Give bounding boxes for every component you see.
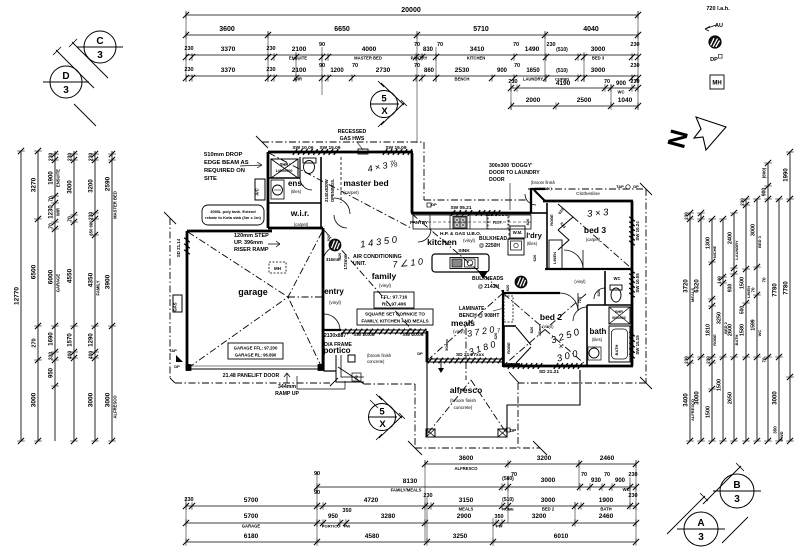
wir-ens internal wall: [268, 202, 321, 204]
garage door bottom thin: [187, 368, 324, 370]
svg-text:(broom finish: (broom finish: [531, 180, 556, 185]
svg-text:70: 70: [604, 79, 610, 85]
svg-text:PANTRY: PANTRY: [410, 220, 428, 225]
cupboard dashed front: [508, 215, 510, 240]
svg-text:1810: 1810: [706, 324, 712, 336]
svg-text:230: 230: [684, 212, 689, 220]
ens shower: [271, 159, 298, 178]
svg-text:BENCH @ 908HT: BENCH @ 908HT: [459, 313, 499, 319]
svg-text:LINEN: LINEN: [552, 252, 557, 264]
svg-text:KITCHEN: KITCHEN: [467, 56, 486, 61]
MH dashed box: [269, 262, 286, 273]
svg-text:(broom finish: (broom finish: [367, 353, 392, 358]
svg-text:@ 2143H: @ 2143H: [478, 284, 499, 290]
svg-text:TAP: TAP: [616, 184, 624, 189]
svg-text:2460: 2460: [600, 455, 615, 462]
svg-text:56mm: 56mm: [537, 324, 542, 336]
svg-text:SW 15.09: SW 15.09: [385, 145, 406, 151]
svg-text:920: 920: [326, 234, 331, 241]
svg-text:ENSUITE: ENSUITE: [289, 56, 307, 61]
ens shr wall: [268, 177, 300, 179]
svg-text:w.i.r.: w.i.r.: [290, 208, 310, 218]
svg-text:3270: 3270: [31, 177, 38, 192]
svg-text:SW 10.06: SW 10.06: [292, 145, 313, 151]
svg-text:350: 350: [494, 514, 503, 520]
pantry door arc: [418, 229, 431, 242]
svg-text:4550: 4550: [67, 268, 74, 283]
svg-text:1900: 1900: [49, 171, 55, 185]
svg-text:ens.: ens.: [288, 179, 304, 188]
svg-text:3200: 3200: [537, 455, 552, 462]
bed2 diagonals: [504, 294, 586, 365]
svg-text:DP: DP: [633, 184, 639, 189]
svg-text:900: 900: [497, 68, 508, 74]
svg-text:1500: 1500: [717, 379, 723, 391]
svg-text:2140x820W: 2140x820W: [324, 179, 329, 202]
section marker A/3: [677, 512, 725, 546]
bath shower: [609, 307, 630, 324]
portico step: [324, 370, 336, 372]
alfresco ridge: [428, 380, 471, 433]
meals floor arrow: [440, 361, 442, 371]
kitchen cooktop: [453, 217, 467, 229]
svg-text:REQUIRED ON: REQUIRED ON: [204, 168, 245, 174]
svg-text:RISER RAMP: RISER RAMP: [234, 247, 269, 253]
svg-text:rebate to Kota slab (3m x 1m): rebate to Kota slab (3m x 1m): [205, 215, 261, 220]
svg-text:3: 3: [63, 85, 69, 96]
svg-text:3000: 3000: [541, 477, 556, 484]
wir bottom wall: [268, 227, 323, 230]
svg-text:70: 70: [514, 63, 520, 69]
svg-text:ROBE: ROBE: [549, 214, 554, 226]
svg-text:820: 820: [505, 284, 510, 291]
svg-text:(600): (600): [762, 167, 767, 178]
svg-text:4580: 4580: [365, 533, 380, 540]
svg-text:Clothesline: Clothesline: [576, 191, 600, 197]
master robe sliding front: [340, 157, 342, 203]
bath tub: [609, 326, 630, 362]
svg-text:6010: 6010: [554, 533, 569, 540]
svg-text:1900: 1900: [599, 497, 614, 504]
svg-text:3000: 3000: [751, 224, 757, 236]
svg-text:bath: bath: [590, 327, 607, 336]
svg-text:720: 720: [577, 296, 582, 303]
svg-text:alfresco: alfresco: [450, 385, 483, 395]
svg-text:bed 2: bed 2: [540, 312, 562, 322]
exterior wall master bed right: [411, 153, 414, 213]
svg-text:21.48 PANELIFT DOOR: 21.48 PANELIFT DOOR: [223, 373, 280, 379]
svg-text:70: 70: [49, 196, 55, 202]
svg-text:6650: 6650: [334, 26, 350, 33]
wc toilet: [611, 288, 621, 302]
svg-text:230: 230: [89, 153, 95, 162]
svg-text:SW 20.06: SW 20.06: [353, 332, 374, 338]
svg-text:(vinyl): (vinyl): [463, 238, 476, 243]
svg-text:350: 350: [773, 426, 778, 434]
svg-text:ROBE: ROBE: [506, 342, 511, 354]
svg-text:12770: 12770: [14, 287, 21, 305]
svg-text:830: 830: [423, 47, 434, 53]
interior wall bed3 left-robe: [546, 203, 548, 269]
entry door arc: [324, 314, 340, 330]
svg-text:1230: 1230: [49, 205, 55, 219]
svg-text:820: 820: [525, 218, 530, 225]
svg-text:3000L poly tank. Extend: 3000L poly tank. Extend: [210, 209, 256, 214]
svg-text:70: 70: [49, 223, 55, 229]
svg-text:FAMILY/MEALS: FAMILY/MEALS: [391, 488, 422, 493]
svg-text:3000: 3000: [88, 392, 95, 407]
svg-text:MASTER BED: MASTER BED: [354, 56, 382, 61]
svg-text:family: family: [372, 271, 397, 281]
svg-text:FWD: FWD: [779, 431, 784, 440]
svg-text:3: 3: [698, 532, 704, 543]
svg-text:3000: 3000: [695, 391, 701, 405]
svg-text:ALFRESCO: ALFRESCO: [113, 395, 118, 419]
svg-text:PANTRY: PANTRY: [411, 56, 428, 61]
svg-text:(vinyl): (vinyl): [379, 283, 392, 288]
svg-text:210: 210: [508, 79, 517, 85]
svg-text:GAS: GAS: [173, 302, 178, 311]
svg-text:(broom finish: (broom finish: [450, 398, 477, 403]
svg-text:X: X: [379, 419, 386, 430]
bath north wall: [587, 304, 632, 306]
svg-text:GARAGE RL: 96.890: GARAGE RL: 96.890: [235, 353, 277, 358]
svg-text:SW 10.24: SW 10.24: [635, 221, 640, 241]
svg-text:A: A: [697, 518, 704, 529]
bed2 robe doors: [503, 326, 505, 364]
svg-text:2900: 2900: [457, 513, 472, 520]
svg-text:1500: 1500: [740, 277, 746, 289]
svg-text:20000: 20000: [401, 7, 421, 14]
svg-text:SHR: SHR: [615, 310, 623, 314]
svg-text:5710: 5710: [473, 26, 489, 33]
svg-text:REF.: REF.: [493, 220, 503, 226]
GAS meter box: [173, 295, 182, 312]
svg-text:master bed: master bed: [343, 178, 388, 188]
family south window wall: [341, 329, 427, 331]
svg-text:DP: DP: [510, 428, 516, 433]
svg-text:5700: 5700: [244, 513, 259, 520]
svg-text:344mm: 344mm: [278, 384, 296, 390]
svg-text:3: 3: [97, 50, 103, 61]
svg-text:6000: 6000: [48, 269, 55, 284]
alfresco boundary: [427, 362, 580, 437]
svg-text:BATH: BATH: [614, 344, 619, 355]
section cut line D lower: [74, 104, 96, 126]
svg-text:(vinyl): (vinyl): [574, 279, 586, 284]
right dimension strip: [684, 149, 794, 444]
svg-text:BULKHEAD: BULKHEAD: [479, 236, 507, 242]
svg-text:3 × 3: 3 × 3: [587, 207, 610, 220]
svg-text:WIR: WIR: [294, 77, 302, 82]
family-kitchen diagonal: [412, 214, 503, 292]
laundry nib walls: [531, 189, 545, 213]
entry diagonal: [324, 230, 412, 330]
svg-text:3400: 3400: [684, 393, 690, 407]
svg-text:SW 20.06: SW 20.06: [402, 332, 423, 338]
svg-text:@ 2250H: @ 2250H: [479, 243, 500, 249]
legend AU arrow: [705, 23, 723, 31]
svg-text:MEALS: MEALS: [459, 507, 474, 512]
svg-text:TAP: TAP: [169, 348, 177, 353]
svg-text:FAMILY: FAMILY: [96, 280, 101, 295]
svg-text:(510): (510): [556, 68, 568, 74]
wir door arc: [334, 215, 347, 228]
svg-text:OPENINGS.: OPENINGS.: [330, 179, 335, 202]
svg-text:330: 330: [49, 352, 55, 361]
svg-text:3000: 3000: [105, 392, 112, 407]
svg-text:ENSUITE: ENSUITE: [56, 169, 61, 187]
portico step label 2: [352, 373, 361, 381]
svg-text:l'dry: l'dry: [526, 231, 542, 240]
svg-text:70: 70: [604, 472, 610, 478]
svg-text:930: 930: [728, 284, 734, 293]
svg-text:ROBE: ROBE: [712, 334, 717, 346]
svg-text:2000: 2000: [526, 97, 541, 104]
svg-text:meals: meals: [451, 318, 475, 328]
ffl box: [374, 292, 414, 308]
svg-text:(tiles): (tiles): [291, 189, 302, 194]
svg-text:50mm: 50mm: [444, 339, 449, 351]
svg-text:70: 70: [511, 472, 517, 478]
svg-text:DP: DP: [174, 364, 180, 369]
exterior wall master-ens top: [268, 151, 413, 154]
svg-text:500: 500: [740, 306, 746, 315]
svg-text:4000: 4000: [362, 46, 377, 53]
meals diagonal: [430, 293, 503, 358]
svg-text:FW: FW: [496, 524, 502, 529]
laundry trough: [508, 239, 524, 255]
svg-text:3900: 3900: [105, 274, 112, 289]
svg-text:400: 400: [68, 351, 74, 360]
svg-text:BED 2: BED 2: [542, 507, 555, 512]
svg-text:H.P. & GAS U.B.O.: H.P. & GAS U.B.O.: [440, 231, 481, 237]
svg-text:1490: 1490: [525, 46, 540, 53]
svg-text:5: 5: [379, 407, 385, 418]
svg-text:6500: 6500: [31, 264, 38, 279]
svg-text:7780: 7780: [773, 283, 779, 297]
ramp leader bracket: [297, 376, 345, 389]
roof eave outline: [164, 136, 652, 455]
exterior wall kitchen top: [411, 212, 531, 215]
svg-text:1570: 1570: [68, 333, 74, 347]
svg-text:SW 05.21: SW 05.21: [450, 205, 471, 211]
exterior wall ens-wir left: [267, 152, 270, 228]
section cut line A-B: [703, 466, 741, 504]
svg-text:SQUARE SET CORNICE TO: SQUARE SET CORNICE TO: [365, 312, 425, 317]
svg-text:70: 70: [437, 42, 443, 48]
svg-text:concrete): concrete): [367, 359, 385, 364]
bed2 left wall: [502, 290, 504, 367]
svg-text:7780: 7780: [784, 281, 790, 295]
portico structure: [324, 333, 336, 371]
svg-text:concrete): concrete): [534, 186, 552, 191]
washing machine: [510, 226, 525, 238]
svg-text:1300: 1300: [706, 237, 712, 249]
svg-text:BATH: BATH: [600, 507, 611, 512]
north arrow: [662, 117, 726, 151]
svg-text:3250: 3250: [717, 312, 723, 324]
legend hatched circle DP: [709, 36, 721, 48]
svg-text:DP: DP: [710, 57, 718, 63]
meals ridge dash: [465, 328, 467, 359]
svg-text:1690: 1690: [49, 332, 55, 346]
svg-text:D: D: [62, 71, 69, 82]
svg-text:X: X: [381, 106, 388, 117]
svg-text:SITE: SITE: [204, 176, 217, 182]
svg-text:3720: 3720: [684, 279, 690, 293]
svg-text:230: 230: [706, 356, 711, 364]
svg-text:(tiles): (tiles): [592, 337, 603, 342]
AC unit box: [255, 179, 265, 200]
bulkheads leader arrow: [478, 271, 488, 279]
svg-text:2100: 2100: [292, 67, 307, 74]
garage door jamb blocks: [186, 365, 191, 371]
svg-text:garage: garage: [238, 287, 268, 297]
svg-text:900: 900: [762, 188, 768, 197]
ldry-linen wall: [531, 212, 547, 214]
garage walls: [186, 231, 189, 369]
exterior wall bed3 top: [543, 200, 633, 203]
front entry internal arc: [323, 246, 339, 262]
svg-text:400: 400: [89, 351, 95, 360]
garage hip roof diagonals: [188, 232, 288, 297]
svg-text:720 l.a.h.: 720 l.a.h.: [706, 6, 730, 12]
entry south door frame: [324, 329, 341, 331]
island sink: [450, 258, 478, 269]
bed2 top wall: [503, 292, 560, 294]
svg-text:SD 21.21: SD 21.21: [539, 369, 559, 375]
svg-text:WIR: WIR: [56, 208, 61, 216]
svg-text:620: 620: [596, 289, 601, 296]
svg-text:2400: 2400: [728, 232, 734, 244]
svg-text:×: ×: [559, 342, 564, 351]
svg-text:820: 820: [337, 252, 342, 259]
svg-text:concrete): concrete): [454, 405, 473, 410]
svg-text:1040: 1040: [618, 97, 633, 104]
svg-text:NICHE: NICHE: [712, 245, 717, 258]
svg-text:1290: 1290: [89, 333, 95, 347]
svg-text:230: 230: [89, 212, 95, 221]
meals south window wall: [427, 358, 503, 360]
alfresco post right: [498, 429, 507, 437]
square set cornice box: [357, 309, 433, 325]
svg-text:1599: 1599: [751, 319, 757, 330]
section marker B/3: [713, 474, 761, 508]
svg-text:RAMP UP: RAMP UP: [275, 391, 299, 397]
hatched circle symbol: [515, 276, 527, 288]
svg-text:FFL: 97.716: FFL: 97.716: [381, 295, 408, 301]
svg-text:SHR: SHR: [280, 162, 289, 167]
section marker C/3: [77, 31, 123, 63]
svg-text:5700: 5700: [244, 497, 259, 504]
svg-text:900x900: 900x900: [612, 316, 626, 320]
detail marker 5/X: [370, 81, 407, 127]
top dimension strip: [183, 7, 641, 143]
svg-text:2500: 2500: [577, 97, 592, 104]
tap symbol garage: [176, 355, 183, 362]
svg-text:70: 70: [762, 357, 767, 363]
svg-text:GARAGE FFL: 97.200: GARAGE FFL: 97.200: [234, 346, 278, 351]
svg-text:FAMILY, KITCHEN AND MEALS: FAMILY, KITCHEN AND MEALS: [361, 319, 428, 324]
svg-text:2600: 2600: [728, 324, 734, 336]
svg-text:GAS HWS: GAS HWS: [340, 136, 365, 142]
svg-text:2530: 2530: [455, 67, 470, 74]
svg-text:650 680: 650 680: [89, 220, 94, 236]
svg-text:510mm DROP: 510mm DROP: [204, 152, 242, 158]
svg-text:LAUNDRY: LAUNDRY: [523, 77, 544, 82]
svg-text:140: 140: [717, 276, 722, 284]
svg-text:BED 3: BED 3: [757, 235, 762, 248]
laundry 45 door wall: [534, 190, 545, 201]
svg-text:RECESSED: RECESSED: [338, 129, 367, 135]
kitchen cabinet dashes: [413, 221, 531, 223]
ldry door arc: [525, 194, 536, 205]
svg-text:2100: 2100: [292, 46, 307, 53]
svg-text:1580: 1580: [740, 324, 746, 336]
svg-text:3000: 3000: [68, 180, 74, 194]
svg-text:DOOR TO LAUNDRY: DOOR TO LAUNDRY: [489, 170, 540, 176]
svg-text:2730: 2730: [376, 67, 391, 74]
bed2 niche bench: [504, 296, 513, 322]
svg-text:4350: 4350: [88, 272, 95, 287]
svg-text:230: 230: [740, 198, 745, 206]
svg-text:300x300 'DOGGY': 300x300 'DOGGY': [489, 163, 532, 169]
svg-text:(carpet): (carpet): [586, 237, 601, 242]
ens toilet: [304, 161, 315, 174]
svg-text:SD 21.14: SD 21.14: [176, 238, 181, 257]
svg-text:2: 2: [355, 376, 358, 382]
section cut line B lower: [722, 517, 748, 543]
svg-text:UNIT.: UNIT.: [353, 261, 367, 267]
svg-text:230: 230: [68, 153, 74, 162]
section marker D/3: [43, 66, 89, 98]
svg-text:8130: 8130: [403, 478, 418, 485]
svg-text:1650: 1650: [526, 68, 540, 74]
svg-text:entry: entry: [324, 287, 344, 296]
svg-text:3370: 3370: [221, 67, 236, 74]
svg-text:860: 860: [424, 68, 435, 74]
svg-text:GARAGE: GARAGE: [56, 274, 61, 293]
svg-text:PORTICO: PORTICO: [322, 524, 340, 529]
svg-text:950: 950: [328, 514, 339, 520]
svg-text:4040: 4040: [583, 26, 599, 33]
svg-text:930: 930: [591, 478, 602, 484]
svg-text:5: 5: [381, 94, 387, 105]
svg-text:620: 620: [532, 254, 537, 261]
svg-text:EDGE BEAM AS: EDGE BEAM AS: [204, 160, 249, 166]
svg-text:6180: 6180: [244, 533, 259, 540]
svg-text:DP: DP: [431, 202, 437, 207]
svg-text:WC: WC: [757, 330, 762, 337]
svg-text:FW: FW: [344, 524, 350, 529]
svg-text:1400x900: 1400x900: [276, 169, 293, 173]
legend MH box: [710, 75, 724, 89]
master bed diagonal: [269, 153, 411, 228]
bed3 diagonal: [573, 217, 631, 268]
svg-text:AU: AU: [715, 23, 723, 29]
svg-text:3250: 3250: [453, 533, 468, 540]
linen cupboard: [549, 240, 562, 269]
svg-text:O/A FRAME: O/A FRAME: [324, 342, 353, 348]
wir right wall: [320, 157, 322, 228]
wc door arc: [594, 288, 605, 299]
alfresco step line: [506, 425, 508, 437]
svg-text:70: 70: [352, 63, 358, 69]
svg-text:DP: DP: [417, 351, 423, 356]
svg-text:3410: 3410: [470, 46, 485, 53]
svg-text:WC: WC: [623, 487, 630, 492]
